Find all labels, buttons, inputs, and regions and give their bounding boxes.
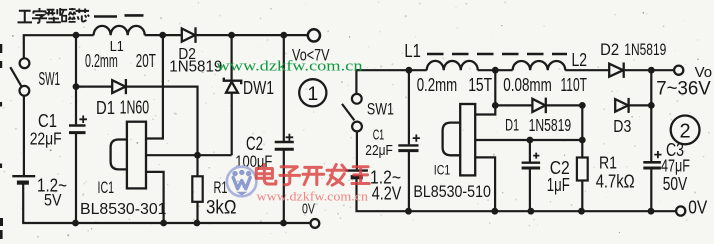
node: feedback junction (194, 152, 201, 159)
wire: D2 to Vo terminal (197, 34, 308, 36)
svg-text:20T: 20T (136, 50, 156, 71)
svg-text:D1: D1 (505, 116, 519, 135)
circled number 1 (299, 79, 326, 106)
wire: bottom rail (circuit 2) (356, 210, 677, 212)
node: D1 anode junction (73, 83, 80, 90)
capacitor C3 (circuit 2) (643, 151, 661, 211)
wire: top-left corner to L1 (circuit 2) (356, 70, 426, 94)
wire: D2 to Vo terminal (circuit 2) (625, 69, 674, 71)
diode D3 (circuit 2) with wire (615, 98, 651, 113)
node: output node top (648, 67, 655, 74)
node: C3 bottom (648, 208, 655, 215)
svg-text:1N5819: 1N5819 (529, 115, 572, 135)
node: C2 top (circuit 2) (527, 137, 534, 144)
svg-text:7~36V: 7~36V (656, 79, 711, 100)
svg-text:0.08mm: 0.08mm (503, 75, 552, 95)
svg-text:1μF: 1μF (547, 175, 570, 195)
svg-text:BL8530-510: BL8530-510 (413, 183, 491, 201)
svg-text:1N60: 1N60 (120, 97, 150, 118)
svg-text:www.dzkfw.com.cn: www.dzkfw.com.cn (217, 59, 364, 75)
watermark blue W logo (227, 167, 257, 197)
terminal 0V (circuit 2) (676, 206, 685, 215)
node: GND pin rail (circuit 2) (491, 208, 498, 215)
title text: core type (gong zi xing ci xin) (18, 8, 90, 23)
wire: SW1 to battery (circuit 2) (356, 131, 358, 169)
diode D2 (circuit 1) (182, 27, 196, 43)
scan edge marks (0, 44, 3, 239)
pin LX: IC1 to switch node (circuit 2) (475, 70, 495, 114)
capacitor C2 (circuit 2) (522, 140, 541, 211)
svg-text:L1: L1 (404, 41, 421, 61)
switch SW1 (circuit 2) (342, 94, 362, 131)
wire: L1 to L2 (478, 69, 513, 71)
svg-text:DW1: DW1 (243, 78, 274, 98)
svg-text:D2: D2 (600, 41, 619, 59)
wire: bottom rail (circuit 1) (22, 222, 311, 224)
svg-text:IC1: IC1 (434, 162, 451, 177)
inductor L2 (circuit 2) (513, 61, 566, 70)
wire: L2 to D2 (circuit 2) (565, 69, 609, 71)
zener diode DW1 (circuit 1) (224, 35, 241, 155)
diode D1 (circuit 2) with wires (495, 98, 582, 114)
svg-text:4.2V: 4.2V (372, 184, 402, 204)
terminal 0V (circuit 1) (311, 219, 320, 228)
svg-text:L2: L2 (572, 50, 588, 70)
node: C2 bottom (circuit 2) (528, 208, 535, 215)
svg-text:50V: 50V (663, 174, 688, 194)
terminal Vo (circuit 2) (674, 66, 683, 75)
node: D1 anode junction (circuit 2) (492, 102, 499, 109)
svg-text:22μF: 22μF (365, 142, 393, 159)
resistor R1 (circuit 2) (577, 105, 588, 211)
wire: SW1 to battery (23, 96, 25, 175)
pin LX: IC1 to switch node (146, 35, 163, 138)
node: C2 top (280, 32, 287, 39)
circled number 2 (671, 115, 700, 144)
node: C1 bottom (72, 220, 79, 227)
svg-text:0.2mm: 0.2mm (85, 50, 118, 71)
svg-text:SW1: SW1 (39, 69, 61, 89)
battery 1.2-4.2V (circuit 2) (345, 171, 368, 212)
svg-text:0.2mm: 0.2mm (417, 75, 458, 95)
svg-text:1N5819: 1N5819 (169, 59, 222, 76)
node: FB tap on R1 line (579, 137, 586, 144)
svg-text:0V: 0V (688, 198, 707, 218)
watermark red characters dian zi kai fa wang (256, 165, 369, 186)
node: switch node junction (159, 32, 166, 39)
inductor L1 (circuit 1) (94, 26, 145, 35)
inductor L1 (circuit 2) (427, 61, 478, 70)
leader dashes from title to L1 (94, 15, 144, 16)
resistor R1 (circuit 1) (192, 155, 202, 223)
wire: top-left corner to L1 (24, 35, 94, 58)
pin GND: IC1 to bottom rail (146, 172, 164, 223)
svg-text:1N5819: 1N5819 (624, 41, 666, 59)
node: D3 to output junction (648, 102, 655, 109)
svg-text:110T: 110T (561, 75, 588, 95)
svg-text:BL8530-301: BL8530-301 (80, 201, 167, 218)
svg-text:22μF: 22μF (30, 129, 62, 149)
svg-text:SW1: SW1 (367, 100, 394, 119)
svg-text:3kΩ: 3kΩ (206, 198, 237, 219)
svg-text:1: 1 (307, 83, 318, 105)
svg-text:15T: 15T (468, 75, 492, 95)
svg-text:www.dzkfw.com.cn: www.dzkfw.com.cn (257, 189, 369, 204)
node: R1 bottom (circuit 2) (578, 208, 585, 215)
capacitor C1 (circuit 1) (69, 35, 87, 223)
svg-text:4.7kΩ: 4.7kΩ (596, 171, 635, 192)
op-amp IC1 package BL8530-301 (circuit 1) (111, 122, 146, 189)
svg-text:5V: 5V (44, 191, 62, 210)
diode D1 (circuit 1) with wires (76, 79, 198, 155)
svg-text:R1: R1 (214, 178, 228, 197)
battery 1.2-5V (circuit 1) (12, 176, 35, 223)
node: R1 top junction (circuit 2) (579, 102, 586, 109)
node: C1 top (circuit 2) (406, 67, 413, 74)
node: DW1 top (228, 32, 235, 39)
wire: output right vertical (circuit 2) (650, 70, 652, 161)
dashed coupling line L1-L2 (427, 53, 567, 56)
diode D2 (circuit 2) (609, 63, 624, 78)
svg-text:47μF: 47μF (661, 156, 690, 176)
node: C1 top (73, 32, 80, 39)
capacitor C2 (circuit 1) (275, 35, 294, 223)
pin GND: IC1 to rail (circuit 2) (475, 157, 495, 211)
svg-text:D1: D1 (96, 97, 115, 118)
capacitor C1 (circuit 2) (398, 70, 420, 211)
pin OUT/FB: IC1 to feedback node (146, 154, 232, 156)
svg-text:D3: D3 (613, 116, 631, 136)
node: R1 bottom on rail (194, 220, 201, 227)
node: switch node (circuit 2) (492, 67, 499, 74)
pin FB: IC1 feedback line (circuit 2) (475, 139, 582, 141)
node: C2 bottom (280, 220, 287, 227)
svg-text:IC1: IC1 (98, 179, 115, 197)
svg-text:2: 2 (680, 120, 691, 142)
wire: L1 to D2 (145, 34, 182, 36)
terminal Vo (circuit 1) (308, 29, 320, 41)
node: GND pin on rail (160, 220, 167, 227)
node: C1 bottom (circuit 2) (405, 208, 412, 215)
op-amp IC1 package BL8530-510 (circuit 2) (443, 104, 476, 175)
switch SW1 (circuit 1) (10, 58, 29, 95)
